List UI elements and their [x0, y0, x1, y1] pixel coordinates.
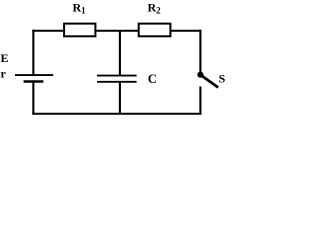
svg-text:E: E	[1, 51, 9, 65]
switch S pivot dot	[197, 72, 203, 78]
wire middle branch upper	[119, 31, 121, 76]
wire middle branch lower	[119, 82, 121, 114]
wire right upper	[199, 30, 201, 75]
svg-text:r: r	[1, 67, 7, 81]
wire top	[32, 30, 201, 32]
resistor R2	[139, 24, 171, 37]
svg-text:R2: R2	[148, 1, 162, 16]
resistor R1	[64, 24, 95, 37]
wire bottom	[32, 113, 201, 115]
switch S blade	[202, 76, 219, 88]
capacitor C top plate	[97, 75, 137, 77]
wire left upper	[32, 30, 34, 75]
wire right lower	[199, 86, 201, 114]
battery E r negative plate	[24, 80, 44, 83]
svg-text:C: C	[148, 72, 157, 86]
svg-text:S: S	[219, 71, 225, 85]
wire left lower	[32, 82, 34, 115]
svg-text:R1: R1	[73, 1, 87, 16]
battery E r positive plate	[15, 74, 53, 76]
capacitor C bottom plate	[97, 81, 137, 83]
